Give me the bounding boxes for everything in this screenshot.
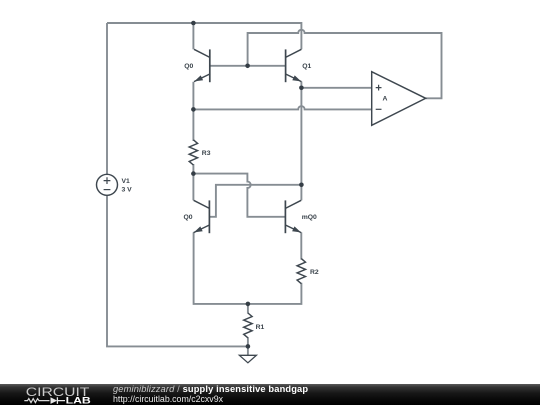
wire op-amp minus input hopping over Q1 emitter	[193, 106, 371, 109]
V1 plus mark	[104, 177, 111, 184]
wire lower Q0 collector lead	[192, 174, 194, 201]
transistor mQ0	[285, 200, 301, 233]
svg-text:A: A	[383, 96, 388, 103]
wire op-amp plus input	[301, 87, 371, 89]
op-amp plus mark	[376, 85, 382, 91]
svg-text:R2: R2	[310, 269, 319, 276]
V1 minus mark	[104, 189, 111, 191]
wire top supply rail to Q1 collector	[107, 23, 301, 49]
op-amp minus mark	[376, 108, 382, 110]
resistor R1	[244, 313, 252, 338]
footer text	[113, 384, 533, 405]
transistor Q0 (top, mirrored)	[194, 49, 210, 82]
CircuitLab logo	[22, 384, 102, 405]
svg-text:Q0: Q0	[184, 63, 193, 70]
wire R3 bottom lead to node	[192, 164, 194, 174]
node dot R1 top	[246, 302, 251, 307]
svg-text:Q0: Q0	[184, 214, 193, 221]
resistor R3	[189, 140, 197, 165]
wire Q0 emitter down to R3	[192, 82, 194, 141]
wire R1 leads	[247, 304, 249, 347]
wire base link Q0-Q1	[210, 65, 286, 67]
node dot R3 bottom	[191, 171, 196, 176]
wire V1 bottom down to bottom rail and right to ground node	[107, 195, 248, 346]
wire left supply rail from top-left corner down to V1 top	[106, 23, 108, 174]
node dot ground	[246, 344, 251, 349]
svg-text:R1: R1	[256, 324, 265, 331]
svg-text:Q1: Q1	[302, 63, 311, 70]
wire feedback from base node up over Q1 collector to op-amp output	[248, 30, 442, 99]
svg-text:mQ0: mQ0	[302, 214, 317, 221]
wire mQ0 collector lead	[300, 185, 302, 201]
node dot base line / feedback	[245, 64, 250, 69]
node dot mQ0 collector	[299, 183, 304, 188]
logo resistor zigzag	[24, 399, 49, 403]
svg-text:3 V: 3 V	[122, 186, 133, 193]
resistor R2	[297, 259, 305, 284]
wire mQ0 emitter down to R2 top	[300, 232, 302, 259]
node dot Q0 emitter / minus input	[191, 107, 196, 112]
svg-text:LAB: LAB	[66, 396, 92, 405]
footer bar	[0, 384, 540, 405]
ground	[239, 355, 256, 363]
wire Q0 collector to top rail	[192, 23, 194, 49]
voltage source V1	[97, 174, 118, 195]
wire lower Q0 base up to mQ0 collector node	[209, 185, 301, 217]
wire R3 node right then down with hop to mQ0 base	[193, 174, 285, 217]
logo diode	[51, 397, 58, 404]
transistor Q0 (lower, mirrored)	[194, 200, 210, 233]
wire lower Q0 emitter down and right to R1 node, up to R2 bottom	[194, 232, 302, 304]
node dot top rail / Q0 collector	[191, 21, 196, 26]
wire ground stub	[247, 346, 249, 355]
wire Q1 emitter down to mQ0 collector node	[300, 82, 302, 185]
op-amp U1 triangle	[372, 72, 426, 126]
transistor Q1 (top)	[286, 49, 302, 82]
svg-text:V1: V1	[122, 178, 131, 185]
node dot Q1 emitter / plus input	[299, 86, 304, 91]
logo diode bar and lead	[57, 397, 65, 404]
svg-text:R3: R3	[202, 150, 211, 157]
